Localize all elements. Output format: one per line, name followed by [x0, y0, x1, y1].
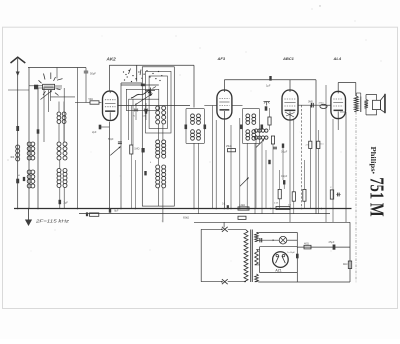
svg-text:4μF: 4μF: [254, 236, 259, 239]
svg-text:0M5: 0M5: [308, 101, 313, 104]
svg-text:300: 300: [10, 156, 15, 159]
svg-text:1MΩ: 1MΩ: [134, 148, 139, 151]
svg-text:0.1μF: 0.1μF: [281, 150, 288, 153]
svg-text:5+10μF: 5+10μF: [287, 252, 295, 254]
svg-text:AK2: AK2: [106, 56, 117, 61]
svg-text:2F=115 kHz: 2F=115 kHz: [35, 218, 71, 223]
svg-text:50pF: 50pF: [90, 72, 96, 76]
svg-text:2μF: 2μF: [92, 130, 97, 134]
svg-text:0.2μF: 0.2μF: [281, 175, 288, 178]
svg-text:25kΩ: 25kΩ: [226, 145, 232, 148]
svg-text:50Ω: 50Ω: [89, 98, 94, 101]
svg-text:65kΩ: 65kΩ: [183, 216, 189, 220]
svg-text:50pF: 50pF: [108, 138, 114, 141]
svg-text:ABC1: ABC1: [282, 56, 295, 61]
svg-text:751 M: 751 M: [366, 177, 387, 217]
svg-text:AF3: AF3: [217, 56, 226, 61]
svg-text:AZ1: AZ1: [275, 268, 281, 272]
svg-text:3kΩ: 3kΩ: [343, 262, 348, 266]
svg-text:1μF: 1μF: [266, 84, 271, 88]
svg-text:4700: 4700: [319, 103, 325, 105]
svg-text:8μF: 8μF: [114, 210, 119, 213]
svg-text:AL4: AL4: [333, 56, 342, 61]
svg-text:40Ω: 40Ω: [304, 241, 309, 245]
svg-text:25μF: 25μF: [329, 240, 335, 244]
svg-text:Philips: Philips: [369, 147, 377, 172]
